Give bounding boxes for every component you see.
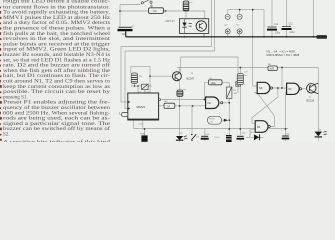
svg-text:100u: 100u	[275, 33, 281, 35]
svg-text:85491: 85491	[210, 119, 216, 121]
capacitor C14 striped dark	[226, 135, 232, 142]
nand gate N4	[255, 121, 270, 133]
resistor R6 inline	[164, 103, 175, 108]
LED D2	[176, 133, 188, 140]
wire bottom hangers	[180, 106, 286, 142]
resistor R8 inline	[268, 66, 277, 71]
svg-text:N1: N1	[288, 87, 292, 91]
capacitor C13	[201, 134, 210, 139]
wire S1 stub	[237, 86, 239, 93]
ground rail thick	[126, 31, 322, 36]
svg-text:100k: 100k	[211, 82, 217, 85]
wire cap feeds top right	[272, 0, 314, 37]
wire switch loop	[120, 3, 152, 26]
capacitor C16	[282, 133, 291, 138]
wire C8 P1 above MMV2	[131, 66, 152, 93]
left text column	[0, 0, 1, 1]
svg-text:buzzer can be switched off by: buzzer can be switched off by means of	[3, 125, 110, 132]
svg-text:1M: 1M	[167, 105, 170, 108]
nand gate N1	[287, 83, 302, 94]
svg-text:N2: N2	[208, 101, 212, 105]
svg-text:CNY 17: CNY 17	[166, 19, 176, 23]
resistor R5 at MMV2 pin	[120, 112, 128, 116]
wire N1 inputs	[286, 92, 287, 136]
svg-text:N3: N3	[259, 86, 263, 90]
switch S3 top left	[141, 0, 152, 4]
wire T1 base	[150, 75, 172, 77]
capacitor C12	[282, 24, 296, 35]
svg-text:BC516: BC516	[307, 99, 315, 102]
svg-text:MMV2: MMV2	[137, 105, 146, 109]
wire y57 routing	[181, 10, 253, 86]
red cut-off glyph fragments along left edge	[0, 7, 2, 141]
svg-text:100u: 100u	[122, 34, 128, 36]
ground rail end blob	[317, 35, 328, 39]
svg-text:C12: C12	[289, 24, 294, 26]
battery terminal circles IC supply	[225, 14, 242, 34]
wire T2 emitter to D1	[317, 137, 319, 141]
svg-text:1M: 1M	[234, 93, 237, 95]
capacitor C9 striped	[237, 72, 248, 85]
nand gate N3	[257, 82, 272, 93]
svg-text:S2.: S2.	[3, 132, 10, 138]
wire C9 down	[239, 85, 241, 136]
capacitor C6 striped	[177, 89, 186, 96]
preset P2	[226, 86, 237, 98]
capacitor C11	[267, 24, 281, 35]
nand gate N2	[206, 97, 223, 109]
capacitor C8 striped	[131, 73, 142, 83]
svg-text:N4: N4	[257, 125, 261, 129]
diode D3	[251, 132, 260, 140]
stamp box with arrow	[208, 116, 229, 124]
LED D1	[315, 129, 327, 137]
wire top-left horizontal y12	[120, 11, 205, 19]
switch S2	[191, 134, 200, 141]
svg-text:MMV1,MMV2 = IC2 = 4528: MMV1,MMV2 = IC2 = 4528	[267, 53, 300, 57]
svg-text:220u: 220u	[290, 32, 296, 34]
resistor R7 inline	[209, 80, 223, 85]
transistor T1 BC547	[172, 72, 194, 81]
wire N4 lower input	[250, 130, 255, 138]
wire N2 output down	[204, 82, 229, 135]
monostable MMV2	[128, 93, 161, 120]
wire stamp arrow line	[222, 119, 224, 121]
svg-text:TR/B: TR/B	[140, 133, 145, 135]
wire supply y67.5	[177, 68, 318, 132]
wire T1 emitter	[179, 80, 181, 136]
svg-text:BC547: BC547	[187, 78, 195, 81]
wire MMV2 bottom to buzzer rail	[134, 120, 289, 135]
pushbutton S1 square	[236, 82, 246, 87]
buzzer Bz	[140, 133, 148, 141]
wire N1 out to T2	[302, 88, 307, 90]
wire MMV2 right to R6 N2	[159, 100, 206, 106]
svg-text:10k: 10k	[153, 9, 158, 13]
svg-text:85491: 85491	[214, 137, 220, 139]
capacitor C15	[237, 133, 247, 139]
svg-text:A sensitive bite indicator of: A sensitive bite indicator of this kind	[3, 138, 111, 142]
transistor T2 BC516	[307, 83, 319, 102]
wire battery top rail	[228, 10, 264, 37]
wire routing bus left	[121, 0, 215, 109]
capacitor C1 striped above optocoupler	[183, 1, 192, 19]
resistor R1	[149, 8, 164, 14]
capacitor C7	[118, 26, 136, 37]
optocoupler U1 CNY17	[166, 18, 209, 37]
svg-text:N1 ... N4 = IC1 = 4093: N1 ... N4 = IC1 = 4093	[267, 50, 296, 54]
svg-text:10M: 10M	[269, 68, 274, 71]
wire N3 inputs and latch cross	[252, 86, 287, 127]
preset P1	[138, 84, 151, 94]
